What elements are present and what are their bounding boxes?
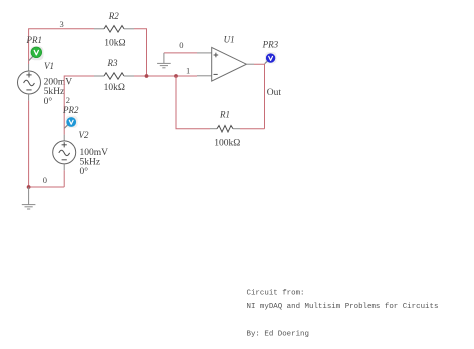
svg-text:NI myDAQ and Multisim Problems: NI myDAQ and Multisim Problems for Circu… (247, 303, 439, 311)
svg-text:5kHz: 5kHz (44, 87, 65, 97)
svg-text:By: Ed Doering: By: Ed Doering (247, 330, 310, 338)
svg-text:0°: 0° (44, 96, 53, 107)
wire feedback right (240, 128, 265, 130)
wire node 1 rail (134, 75, 197, 77)
svg-text:0: 0 (179, 40, 183, 50)
svg-text:2: 2 (66, 95, 70, 105)
wire feedback left (176, 76, 210, 129)
resistor R3 (94, 73, 134, 79)
wire output (254, 64, 265, 129)
junction R2 branch (145, 74, 149, 78)
resistor R1 (210, 125, 240, 131)
wire bottom rail (29, 186, 65, 188)
svg-text:V1: V1 (44, 61, 54, 71)
probe PR2 (62, 105, 79, 128)
wire R2 to corner (134, 29, 147, 76)
op-amp U1 (197, 47, 254, 81)
svg-text:0: 0 (43, 175, 47, 185)
probe PR1 (26, 35, 44, 60)
junction feedback (174, 74, 178, 78)
svg-text:PR1: PR1 (26, 35, 43, 45)
svg-text:10kΩ: 10kΩ (104, 83, 125, 93)
source V1 (18, 64, 41, 101)
wire V1 down to bottom rail (28, 101, 30, 187)
ground GND2 (157, 53, 171, 68)
svg-text:10kΩ: 10kΩ (104, 38, 125, 48)
junction bottom (27, 185, 31, 189)
svg-text:5kHz: 5kHz (80, 158, 101, 168)
probe PR3 (262, 40, 279, 64)
svg-text:100kΩ: 100kΩ (214, 139, 240, 149)
svg-text:3: 3 (60, 19, 64, 29)
svg-text:100mV: 100mV (80, 148, 109, 158)
svg-text:Out: Out (267, 88, 282, 98)
svg-text:PR2: PR2 (62, 105, 79, 115)
ground GND1 (22, 187, 36, 209)
svg-text:R3: R3 (107, 58, 118, 68)
svg-text:U1: U1 (224, 35, 235, 45)
resistor R2 (94, 26, 134, 32)
svg-text:0°: 0° (80, 166, 89, 177)
svg-text:R2: R2 (108, 11, 119, 21)
svg-text:Circuit from:: Circuit from: (247, 290, 305, 298)
svg-text:V2: V2 (79, 130, 89, 140)
source V2 (53, 135, 76, 171)
wire top rail left (29, 29, 94, 64)
wire node2 corner to R3 (64, 76, 94, 135)
svg-text:1: 1 (186, 65, 190, 75)
svg-text:PR3: PR3 (262, 40, 279, 50)
svg-text:R1: R1 (219, 109, 230, 119)
wire V2 down (63, 170, 65, 187)
wire op-amp + input (164, 52, 197, 54)
svg-text:200mV: 200mV (44, 78, 73, 88)
